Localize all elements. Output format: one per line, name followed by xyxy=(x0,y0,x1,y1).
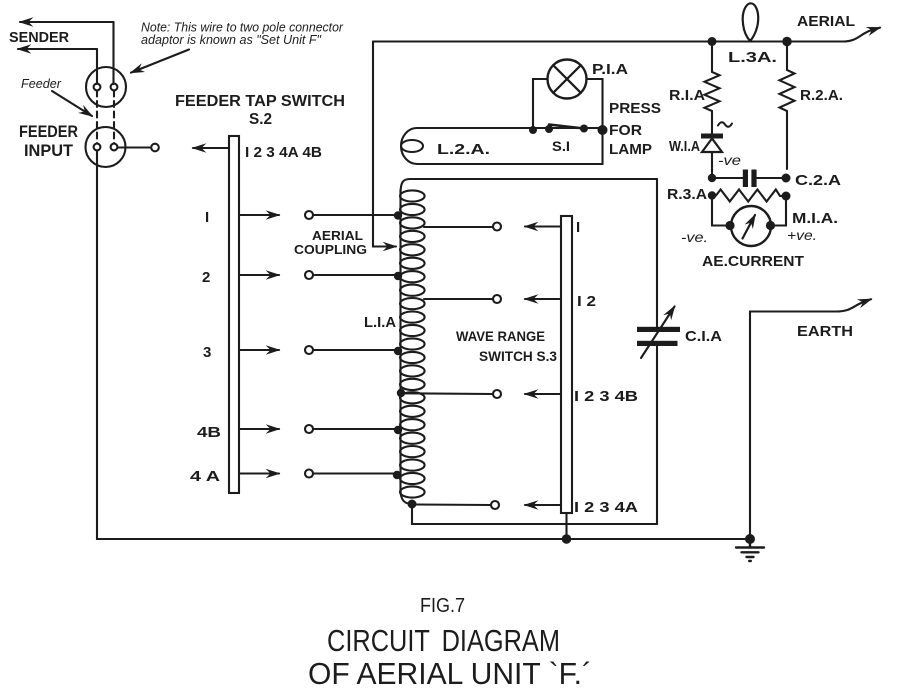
capacitor C.1.A (variable) xyxy=(637,307,680,359)
svg-text:WAVE RANGE: WAVE RANGE xyxy=(456,328,545,344)
svg-text:-ve: -ve xyxy=(718,152,741,168)
node: top rail left junction xyxy=(708,37,717,46)
svg-text:R.2.A.: R.2.A. xyxy=(800,87,843,104)
svg-text:M.I.A.: M.I.A. xyxy=(792,210,838,227)
feeder arrow xyxy=(52,91,92,116)
wire: tuned-circuit box right side (upper) xyxy=(656,179,658,327)
svg-text:CIRCUIT DIAGRAM: CIRCUIT DIAGRAM xyxy=(327,623,560,658)
svg-text:FOR: FOR xyxy=(609,122,642,139)
wire: tuned-circuit box top xyxy=(410,178,657,180)
svg-text:3: 3 xyxy=(203,344,211,361)
svg-text:I 2 3 4A: I 2 3 4A xyxy=(574,499,638,516)
svg-text:SENDER: SENDER xyxy=(9,29,69,46)
wire: sender lead (bottom, to left pin of adaptor) xyxy=(18,49,97,84)
svg-text:I 2: I 2 xyxy=(577,293,596,310)
wire: coil to S.3 row 4 xyxy=(416,501,499,509)
wire: feeder input stub to open contact xyxy=(118,144,159,152)
switch S.2 bar xyxy=(229,136,239,493)
wire: tuned-circuit box right side (lower) xyxy=(656,346,658,524)
meter M.1.A xyxy=(712,196,786,247)
S.2 contact arrow row 1 xyxy=(239,214,279,216)
S.2 contact arrow row 3 xyxy=(239,349,279,351)
coil L.3.A (aerial loop) xyxy=(743,3,759,41)
wire: top rail xyxy=(373,40,787,42)
svg-text:S.2: S.2 xyxy=(249,111,272,128)
svg-text:PRESS: PRESS xyxy=(609,100,661,117)
svg-text:AERIAL: AERIAL xyxy=(312,228,363,243)
svg-text:S.I: S.I xyxy=(552,138,570,154)
svg-text:FEEDER: FEEDER xyxy=(19,122,78,141)
svg-text:4 A: 4 A xyxy=(190,468,220,485)
wire: sender lead (top, to right pin of adaptor) xyxy=(20,22,114,84)
node: S.3 common junction xyxy=(562,534,572,544)
wire: row 2 to coil tap xyxy=(313,272,402,280)
wire: coil to S.3 row 2 xyxy=(424,295,501,303)
rectifier W.1.A xyxy=(701,122,732,178)
svg-text:R.I.A: R.I.A xyxy=(669,87,705,104)
resistor R.2.A xyxy=(780,42,795,170)
S.3 contact arrow row 2 xyxy=(525,298,561,300)
node: top rail right junction xyxy=(782,37,792,47)
connector: feeder input (bottom) xyxy=(86,127,126,167)
switch S.3 bar xyxy=(561,216,572,513)
svg-text:adaptor is known as "Set Unit: adaptor is known as "Set Unit F" xyxy=(141,33,322,47)
S.2 contact arrow row 2 xyxy=(239,274,279,276)
label FEEDER INPUT xyxy=(19,122,78,160)
S.2 contact arrow row 4A xyxy=(239,472,279,474)
wire: row 4A to coil tap xyxy=(313,471,401,479)
S.2 wiper arrow (top) xyxy=(193,147,229,149)
wire: left earth rail xyxy=(97,151,747,540)
wire: tuned-circuit box bottom xyxy=(412,504,657,524)
S.2 contact arrow row 4B xyxy=(239,428,279,430)
svg-text:C.I.A: C.I.A xyxy=(685,328,722,345)
label PRESS FOR LAMP xyxy=(609,100,661,158)
svg-text:I 2 3 4A 4B: I 2 3 4A 4B xyxy=(245,144,322,161)
node: coil bottom tap xyxy=(408,500,417,509)
svg-text:C.2.A: C.2.A xyxy=(795,172,841,189)
node: earth junction xyxy=(745,534,755,544)
connector: two-pole adaptor (top) xyxy=(86,67,126,107)
S.3 contact arrow row 1 xyxy=(525,225,561,227)
node: S.2 row 3 contact xyxy=(305,346,313,354)
svg-text:I 2 3 4B: I 2 3 4B xyxy=(574,388,638,405)
node: S.2 row 4B contact xyxy=(305,425,313,433)
wire: coil to S.3 row 3 xyxy=(397,389,501,398)
svg-text:+ve.: +ve. xyxy=(787,227,817,243)
node: S.2 row 4A contact xyxy=(305,470,313,478)
svg-text:Feeder: Feeder xyxy=(21,76,62,91)
coil L.2.A single-turn loop xyxy=(401,128,603,164)
wire: aerial lead-out arrow xyxy=(787,28,880,42)
ground xyxy=(736,539,764,561)
svg-text:-ve.: -ve. xyxy=(681,229,708,245)
svg-text:OF AERIAL UNIT `F.´: OF AERIAL UNIT `F.´ xyxy=(308,656,592,691)
svg-text:I: I xyxy=(576,219,580,236)
svg-text:SWITCH S.3: SWITCH S.3 xyxy=(479,348,557,364)
wire: aerial coupling feed xyxy=(373,42,396,247)
node: S.2 row 2 contact xyxy=(305,271,313,279)
label AERIAL COUPLING xyxy=(294,228,367,257)
svg-text:L.3A.: L.3A. xyxy=(728,49,777,66)
svg-text:I: I xyxy=(205,209,209,226)
lamp P.1.A xyxy=(533,60,603,165)
svg-text:FIG.7: FIG.7 xyxy=(420,595,465,617)
capacitor C.2.A xyxy=(708,170,791,188)
svg-text:L.I.A: L.I.A xyxy=(364,314,396,331)
svg-text:P.I.A: P.I.A xyxy=(592,61,628,78)
svg-text:AE.CURRENT: AE.CURRENT xyxy=(702,253,804,270)
svg-text:FEEDER TAP SWITCH: FEEDER TAP SWITCH xyxy=(175,93,345,110)
resistor R.1.A xyxy=(705,42,720,135)
S.3 contact arrow row 4 xyxy=(525,504,561,506)
svg-text:EARTH: EARTH xyxy=(797,323,853,340)
note text xyxy=(141,21,344,48)
svg-text:L.2.A.: L.2.A. xyxy=(437,141,490,158)
coil L.1.A xyxy=(400,179,425,504)
wire: coil to S.3 row 1 xyxy=(424,223,501,231)
svg-text:R.3.A: R.3.A xyxy=(667,186,707,203)
svg-text:W.I.A: W.I.A xyxy=(669,138,700,155)
svg-text:COUPLING: COUPLING xyxy=(294,242,367,257)
wire: feeder cable (dashed pair) xyxy=(97,91,114,144)
S.3 contact arrow row 3 xyxy=(525,393,561,395)
note arrow xyxy=(131,50,189,73)
switch S.1 xyxy=(529,125,608,136)
wire: row 4B to coil tap xyxy=(313,426,402,434)
svg-text:2: 2 xyxy=(202,269,210,286)
resistor R.3.A xyxy=(708,190,791,202)
svg-text:AERIAL: AERIAL xyxy=(797,13,855,30)
wire: S.3 common to earth rail xyxy=(565,513,567,539)
wire: row 1 to coil tap xyxy=(313,211,402,219)
wire: earth lead-out arrow xyxy=(750,299,871,538)
wire: row 3 to coil tap xyxy=(313,347,402,355)
svg-text:4B: 4B xyxy=(197,424,221,441)
svg-text:INPUT: INPUT xyxy=(24,141,74,160)
label WAVE RANGE SWITCH S.3 xyxy=(456,328,557,364)
svg-text:LAMP: LAMP xyxy=(609,141,652,158)
node: S.2 row 1 contact xyxy=(305,211,313,219)
